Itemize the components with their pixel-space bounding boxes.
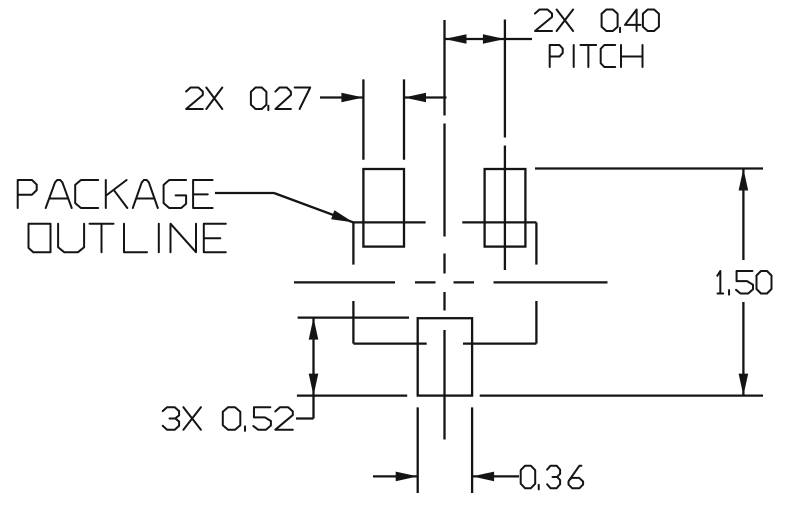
package outline (broken rectangle) xyxy=(353,222,536,343)
pad 3 (bottom land) xyxy=(418,318,472,395)
text 1.50 xyxy=(717,271,771,295)
text 3X 0.52 xyxy=(163,407,293,431)
text 0.36 xyxy=(521,466,583,490)
pad 1 (top-left land) xyxy=(363,169,404,247)
pad 2 axis extension line xyxy=(504,20,506,271)
text PITCH xyxy=(550,45,643,67)
extension line for 0.52 (top of pad 3) xyxy=(298,316,409,318)
dimension line 0.27 with arrows xyxy=(320,93,447,103)
leader to package outline with arrow xyxy=(215,193,353,222)
dimension line 1.50 with arrows xyxy=(739,169,749,396)
extension lines for 1.50 xyxy=(297,169,763,396)
text 2X 0.27 xyxy=(186,88,310,111)
extension lines for 0.27 (pad1 edges) xyxy=(363,79,404,159)
dimension line 0.52 with arrows and leader xyxy=(296,318,318,419)
vertical centerline (dash-dot, drawing axis) xyxy=(443,20,445,440)
text PACKAGE xyxy=(18,180,213,208)
pad 2 (top-right land) xyxy=(485,169,526,247)
text 2X 0.40 xyxy=(535,10,659,33)
text OUTLINE xyxy=(29,224,226,253)
dimension line 0.36 with arrows xyxy=(373,472,519,482)
horizontal centerline (dash-dot, drawing axis) xyxy=(294,281,608,283)
extension lines for 0.36 (pad3 edges) xyxy=(418,407,472,493)
dimension line 0.40 pitch with arrows xyxy=(445,34,533,44)
